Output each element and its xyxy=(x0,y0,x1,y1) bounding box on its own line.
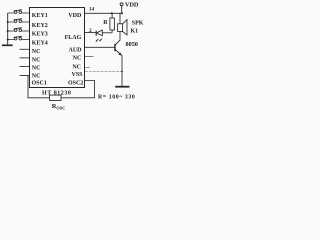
resistor Rosc xyxy=(50,95,62,100)
svg-text:NC: NC xyxy=(73,56,82,62)
svg-text:SPK: SPK xyxy=(132,20,144,26)
svg-text:NC: NC xyxy=(72,64,81,70)
wire OSC1 loop left xyxy=(28,76,50,98)
wire FLAG pin2 xyxy=(85,32,96,34)
switch S4 xyxy=(8,36,30,40)
svg-text:NC: NC xyxy=(32,58,41,64)
wire Rosc to OSC2 xyxy=(61,81,95,98)
svg-text:14: 14 xyxy=(89,7,95,13)
wire NC stub 1 left xyxy=(20,48,30,50)
transistor Q1 8050 xyxy=(114,44,116,51)
svg-text:R: R xyxy=(103,20,108,26)
wire NC stub 1 right xyxy=(85,55,94,57)
svg-text:ROSC: ROSC xyxy=(52,103,66,110)
wire NC stub 3 left xyxy=(20,65,30,67)
switch S2 xyxy=(8,19,30,23)
switch S3 xyxy=(8,28,30,32)
svg-text:KEY1: KEY1 xyxy=(32,13,48,19)
svg-text:2: 2 xyxy=(89,28,92,34)
svg-text:OSC1: OSC1 xyxy=(32,80,47,86)
ground right xyxy=(115,86,129,88)
svg-text:R= 100~ 330: R= 100~ 330 xyxy=(98,94,135,100)
node rail-R xyxy=(111,12,113,14)
wire NC stub 2 left xyxy=(20,57,30,59)
wire VSS to emitter xyxy=(85,71,122,73)
svg-text:KEY4: KEY4 xyxy=(32,41,48,47)
wire NC stub 2 right xyxy=(85,67,90,69)
svg-text:HT 81230: HT 81230 xyxy=(42,90,71,96)
wire VDD rail pin14 xyxy=(85,12,122,14)
node bus-key3 xyxy=(7,30,9,32)
svg-text:VSS: VSS xyxy=(71,72,83,78)
LED D1 xyxy=(95,31,97,36)
svg-text:NC: NC xyxy=(32,49,41,55)
ground left xyxy=(2,44,13,46)
node bus-key2 xyxy=(7,21,9,23)
IC U1 HT81230 body xyxy=(30,8,85,88)
svg-text:8050: 8050 xyxy=(126,41,138,48)
speaker SPK K1 xyxy=(119,13,121,23)
node bus-key4 xyxy=(7,39,9,41)
terminal VDD xyxy=(121,6,123,14)
wire key bus vertical xyxy=(7,13,9,44)
pin labels left column xyxy=(32,13,48,86)
svg-text:K1: K1 xyxy=(131,29,139,35)
svg-text:FLAG: FLAG xyxy=(65,35,82,41)
node rail-spk xyxy=(121,12,123,14)
resistor R xyxy=(111,13,113,33)
svg-text:KEY3: KEY3 xyxy=(32,31,48,37)
switch S1 xyxy=(8,10,30,14)
wire emitter down xyxy=(121,55,123,86)
pin labels right column xyxy=(65,13,84,86)
wire NC stub 4 / OSC1 tap xyxy=(20,75,30,77)
wire AUD to base xyxy=(85,46,115,48)
svg-text:KEY2: KEY2 xyxy=(32,23,48,29)
svg-text:OSC2: OSC2 xyxy=(68,80,83,86)
LED arrows xyxy=(97,39,103,41)
svg-text:NC: NC xyxy=(32,73,41,79)
svg-text:VDD: VDD xyxy=(68,13,82,19)
svg-text:NC: NC xyxy=(32,66,41,72)
svg-text:VDD: VDD xyxy=(125,1,139,8)
svg-text:AUD: AUD xyxy=(69,48,83,54)
